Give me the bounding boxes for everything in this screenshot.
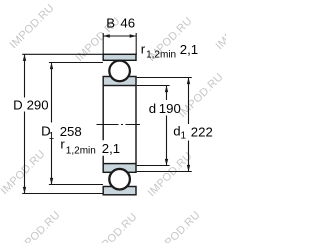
svg-text:r: r — [141, 42, 146, 57]
svg-text:46: 46 — [120, 15, 135, 30]
d1 top arrow — [187, 78, 190, 85]
svg-text:1: 1 — [49, 131, 55, 142]
inner ring top band — [103, 77, 136, 86]
D1 bottom arrow — [50, 178, 53, 185]
ball bottom — [110, 169, 130, 189]
d bottom arrow — [165, 159, 168, 166]
groove circle bottom — [109, 168, 131, 190]
d dimension line (gap at text) — [166, 86, 168, 166]
B right arrow — [130, 34, 137, 37]
d extension lines — [137, 86, 170, 166]
svg-text:d: d — [173, 124, 180, 139]
ball top — [110, 61, 130, 81]
outer ring top band — [103, 54, 136, 60]
D bottom arrow — [23, 187, 26, 194]
D extension lines — [22, 54, 103, 193]
D1 extension lines — [49, 63, 103, 185]
svg-text:2,1: 2,1 — [180, 42, 198, 57]
B dimension line — [103, 35, 136, 37]
svg-text:1,2min: 1,2min — [146, 49, 176, 60]
svg-text:r: r — [60, 137, 65, 152]
bearing cross-section — [103, 54, 136, 195]
bore line left (gap for 2,1 text) — [102, 86, 104, 164]
B extension lines — [103, 33, 136, 55]
d1 bottom arrow — [187, 165, 190, 172]
inner ring bottom band — [103, 164, 136, 173]
groove circle top — [109, 60, 131, 82]
bore line right — [135, 86, 137, 164]
d1 extension lines — [137, 78, 192, 172]
svg-text:d: d — [149, 101, 156, 116]
D1 dimension line (gap at text) — [51, 63, 53, 185]
outer ring bottom band — [103, 187, 136, 195]
centerline — [97, 124, 141, 126]
svg-text:190: 190 — [159, 101, 181, 116]
D1 top arrow — [50, 63, 53, 70]
svg-text:2,1: 2,1 — [102, 141, 120, 156]
svg-text:290: 290 — [27, 98, 49, 113]
D top arrow — [23, 54, 26, 61]
svg-text:222: 222 — [191, 124, 213, 139]
svg-text:D: D — [13, 98, 23, 113]
svg-text:1,2min: 1,2min — [66, 145, 96, 156]
arrowheads — [23, 34, 190, 193]
D dimension line (gap at text) — [24, 54, 26, 193]
svg-text:1: 1 — [181, 131, 187, 142]
svg-text:B: B — [106, 15, 115, 30]
d top arrow — [165, 86, 168, 93]
d1 dimension line (gap at text) — [188, 78, 190, 172]
B left arrow — [103, 34, 110, 37]
